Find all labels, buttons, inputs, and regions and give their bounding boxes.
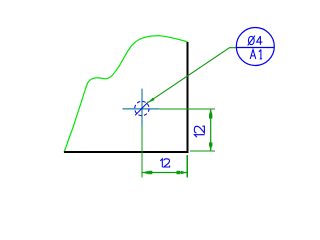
handle squares bbox=[209, 115, 212, 119]
vertical dimension line (12) bbox=[209, 109, 213, 151]
extension line H2 (bottom right corner, right) bbox=[190, 150, 215, 152]
balloon text "A1" bbox=[250, 50, 262, 60]
balloon divider line bbox=[236, 47, 274, 49]
edge: vertical black line bbox=[186, 42, 188, 153]
leader arrowhead bbox=[147, 98, 155, 104]
extension line H1 (from hole center right) bbox=[160, 108, 215, 110]
left arrow bbox=[142, 171, 148, 175]
dimension text "12" (horizontal) bbox=[160, 159, 169, 167]
bottom arrow bbox=[209, 145, 213, 151]
top arrow bbox=[209, 109, 213, 115]
balloon circle (hole callout A1) bbox=[236, 28, 274, 66]
right arrow bbox=[181, 171, 187, 175]
hole diagonal (blue 45-degree line) bbox=[135, 102, 148, 115]
extension line V2 (below corner, down) bbox=[186, 155, 188, 178]
handle squares bbox=[149, 171, 153, 174]
dimension text "12" (vertical, rotated) bbox=[194, 126, 204, 137]
horizontal dimension line (12) bbox=[142, 171, 187, 175]
centre-mark crosshair (teal) bbox=[123, 89, 160, 127]
edge: horizontal black line bbox=[64, 151, 189, 153]
hole: dashed blue circle bbox=[135, 101, 149, 115]
extension line V1 (from hole center down, green over black) bbox=[141, 116, 143, 178]
spline edge (green profile curve) bbox=[64, 36, 188, 153]
balloon text "Ø4" bbox=[248, 36, 263, 46]
leader line (green) bbox=[147, 48, 236, 103]
